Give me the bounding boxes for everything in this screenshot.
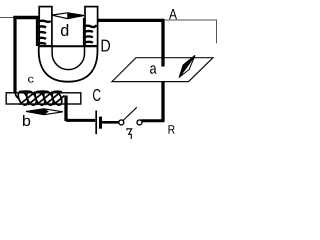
- wire: thin lead-in line top-left: [0, 17, 14, 19]
- electromagnet U-core inner arc: [52, 46, 84, 70]
- switch S: lever: [123, 107, 137, 120]
- switch S: right terminal: [137, 120, 142, 125]
- electromagnet left pole piece: [39, 7, 52, 46]
- wire: bottom-right horizontal to switch: [141, 119, 165, 122]
- label R: [169, 125, 175, 133]
- wire: thick top-right horizontal: [98, 19, 165, 22]
- label D: [102, 40, 110, 52]
- coil C winding: [15, 90, 64, 107]
- label a: [150, 65, 157, 73]
- coil turns on left pole: [37, 17, 51, 47]
- wire: coil C to battery: [66, 119, 95, 122]
- switch S: left terminal: [119, 120, 124, 125]
- label b: [23, 115, 30, 126]
- motion dart d (points right): [52, 13, 85, 19]
- wire: battery to switch: [101, 121, 119, 124]
- wire: vertical lower segment below board: [161, 81, 164, 121]
- electromagnet right pole piece: [85, 7, 98, 46]
- coil turns on right pole: [84, 18, 97, 46]
- thin line to terminal A and right bracket: [165, 20, 217, 43]
- electromagnet U-core outer arc: [39, 46, 98, 82]
- wire: exit of coil C inside rod: [64, 96, 67, 122]
- wire: left vertical down to coil C: [13, 16, 16, 94]
- label C: [93, 89, 101, 101]
- wire: vertical upper segment through board: [161, 19, 164, 67]
- board a (card through which wire passes): [112, 58, 213, 82]
- wire: thick top-left horizontal to electromagnet: [13, 16, 39, 19]
- label c: [28, 77, 34, 83]
- electromagnet U-core yoke line: [39, 45, 99, 47]
- needle arrow on board a: [179, 56, 195, 78]
- motion dart b (points left): [26, 109, 63, 115]
- label d: [61, 24, 68, 36]
- iron rod core of coil C: [6, 93, 81, 104]
- label S: [127, 129, 132, 139]
- battery: short thick plate: [99, 117, 102, 129]
- label A: [169, 9, 177, 19]
- battery: long plate: [95, 111, 97, 135]
